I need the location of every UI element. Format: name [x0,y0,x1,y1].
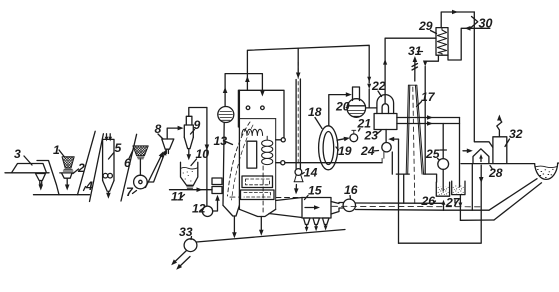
pump 12 discharge riser [213,199,218,212]
valve 21 [350,134,358,142]
hopper 6 feeder lines [138,157,144,159]
incline to hopper 6 [121,134,137,201]
down arrow below tank 27 [459,195,461,221]
arrow from feeder 2 [66,178,68,186]
dryer 15 hopper 2 [313,218,320,225]
pump 12 [202,206,212,216]
incline 4 line b [90,134,104,202]
chimney 17 left leg [406,85,410,174]
up arrow below tank 26 [443,204,445,211]
return riser loop [398,139,400,243]
furnace port circles [246,106,250,110]
downcomer into tank 27 [459,118,461,188]
chimney 17 right leg [415,85,423,174]
S coil vertical [262,136,273,164]
bowl basin [535,163,558,179]
arrow into 23 stem [392,138,399,140]
bypass vertical to pump 12 [206,108,208,206]
chimney base right [424,173,426,175]
right chamber wall [275,119,277,210]
svg-text:19: 19 [338,144,352,158]
arrow down loop right [479,177,484,183]
top header line [247,45,369,90]
pipe oval top to tank 20 [329,95,349,126]
pit profile wall [37,161,59,195]
mill 5 body [103,139,114,180]
left tower dashed flow curve [228,122,251,196]
cyclone 9 outlet arrow [188,149,190,157]
silo 32 [493,137,507,163]
exchanger 29 shell [436,28,448,56]
U tube pump 22 inner [382,104,388,114]
funnel under pile 3 [36,174,46,185]
left tower outlet arrow [233,216,235,235]
pile 3 ground line [5,172,49,174]
svg-text:5: 5 [115,141,122,155]
fan riser and header [225,74,262,107]
dryer 15 body [302,198,331,219]
duct 23 upper line [397,117,460,119]
incline 4 line a [78,131,96,194]
svg-text:33: 33 [179,225,193,239]
arrows 33 down-left [174,251,187,263]
mill 5 outlet arrow [107,191,109,195]
line from port 2 to valve 24 riser [276,162,382,164]
vent pipe with T base [396,174,409,203]
drain from duct to chimney base [391,152,393,174]
svg-text:26: 26 [421,194,436,208]
feeder 2 [60,173,74,178]
narrow duct to valve 14 [296,79,300,169]
right chamber outlet arrow [260,217,262,233]
exchanger top outlet [441,12,474,28]
valve 25 [438,159,449,170]
left tower cone [223,205,239,216]
bottom loop [399,165,482,243]
tank 20 [347,99,366,118]
pipe funnel 8 to cyclone 9 [167,128,180,139]
mill 5 inlet arrows [106,134,108,138]
valve 14 [295,169,302,176]
pile 3 trapezoid [12,164,47,173]
pipe under tent left [471,164,473,211]
filter box B [241,190,275,200]
duct lower line [356,209,444,212]
svg-text:10: 10 [196,147,210,161]
furnace top box [238,90,284,137]
link 7 to funnel 8 b [146,154,163,188]
header downcomer double arrows [367,77,371,82]
hopper 1 feeder lines [63,169,73,171]
inlet 30 pipe [448,28,490,60]
mill 5 cone [103,181,114,192]
stub tower to joint [276,139,281,141]
svg-text:20: 20 [335,100,350,114]
feed arrow into narrow duct [297,48,299,73]
horizontal coil in furnace [242,129,263,135]
svg-text:14: 14 [304,166,318,180]
inner tall rect [247,141,257,168]
svg-text:16: 16 [344,183,358,197]
ground baseline right [461,162,559,165]
svg-text:30: 30 [479,17,493,31]
svg-text:32: 32 [509,127,523,141]
drop line 6 to 7 [139,159,141,175]
narrow duct dashed centerline [297,62,299,166]
funnel 8 [162,139,174,154]
dryer 15 hopper 1 [304,218,311,225]
svg-text:4: 4 [85,179,93,193]
ball joint 16 [343,199,355,211]
right chamber dashed centerline [262,166,264,215]
svg-text:7: 7 [126,185,134,199]
bin 10 feeder lines [187,187,193,189]
arrow from funnel 3 [40,184,42,186]
recycle oval 18 19 [319,126,338,170]
svg-text:17: 17 [421,90,436,104]
dashed duct line [230,196,302,198]
cyclone 9 cone [184,137,193,148]
line oval to valve 21 [337,138,347,140]
valve 24 [382,143,391,152]
blower 7 [134,175,148,189]
tank 20 stem [353,87,360,101]
joint circle right wall [281,138,285,142]
inner chamber top line [239,118,275,120]
chimney exhaust arrow [414,60,416,81]
cyclone 9 body [184,125,193,137]
right chamber cone [239,209,275,216]
pipe down to tank 26 [425,67,436,183]
svg-text:28: 28 [488,166,503,180]
arrow into tent peak [463,150,470,152]
svg-text:27: 27 [445,196,461,210]
chimney dashed centerline [413,87,415,205]
drain line2 from tank 27 [460,219,494,221]
conveyor drive circle 33 [184,239,197,252]
U tube pump 22 outer [377,95,394,114]
zigzag arrow above 32 [497,118,502,137]
pipe valve 25 into tank 26 [442,169,444,191]
pipe exchanger down to 32 [474,12,493,148]
exchanger 29 zigzag [437,28,446,56]
pipe tank 20 to U pump 22 [366,107,377,109]
drain line1 to chute [444,209,490,211]
duct 16 to chimney upper [356,202,444,204]
filter box A [242,176,273,188]
cyclone 9 neck [186,116,192,125]
stem 23 to valve 24 [385,130,387,143]
pump body 23 [374,114,397,130]
svg-text:23: 23 [364,129,379,143]
duct tower to dryer 15 [269,198,302,218]
valve 14 skirt [294,175,303,182]
dryer 15 right cone [331,202,343,215]
pipe cyclone 9 top bypass [189,108,207,117]
tank 27 [452,181,465,195]
svg-text:15: 15 [308,184,322,198]
port circle 2 [281,161,285,165]
duct dashed centerline [332,205,480,208]
outlet line 11 [170,189,213,191]
chimney top edge [408,84,416,86]
bin 10 wavy material [181,167,198,169]
tent 28 [473,149,489,163]
link 7 to funnel 8 a [147,153,165,183]
svg-text:3: 3 [14,147,21,161]
exchanger bottom pipe [425,55,438,63]
left tower walls [223,90,239,209]
bottom conveyor line [34,194,90,196]
dryer 15 hopper 3 [323,218,330,225]
svg-text:6: 6 [124,156,131,170]
conveyor diagonal [197,230,346,243]
dryer 15 internal arrow [305,207,317,209]
bin 10 body [181,162,198,185]
bowl contents [535,166,557,168]
tent internal arrow [480,158,482,162]
fan on tower top [218,107,234,123]
arrow below valve 14 [295,185,297,191]
tank 26 [436,182,449,196]
tower nozzle boxes [212,178,222,194]
chute from bowl [489,179,542,220]
mill 5 rollers [103,173,108,178]
duct 23 lower line [397,123,460,125]
riser to exchanger 29 [385,38,436,103]
